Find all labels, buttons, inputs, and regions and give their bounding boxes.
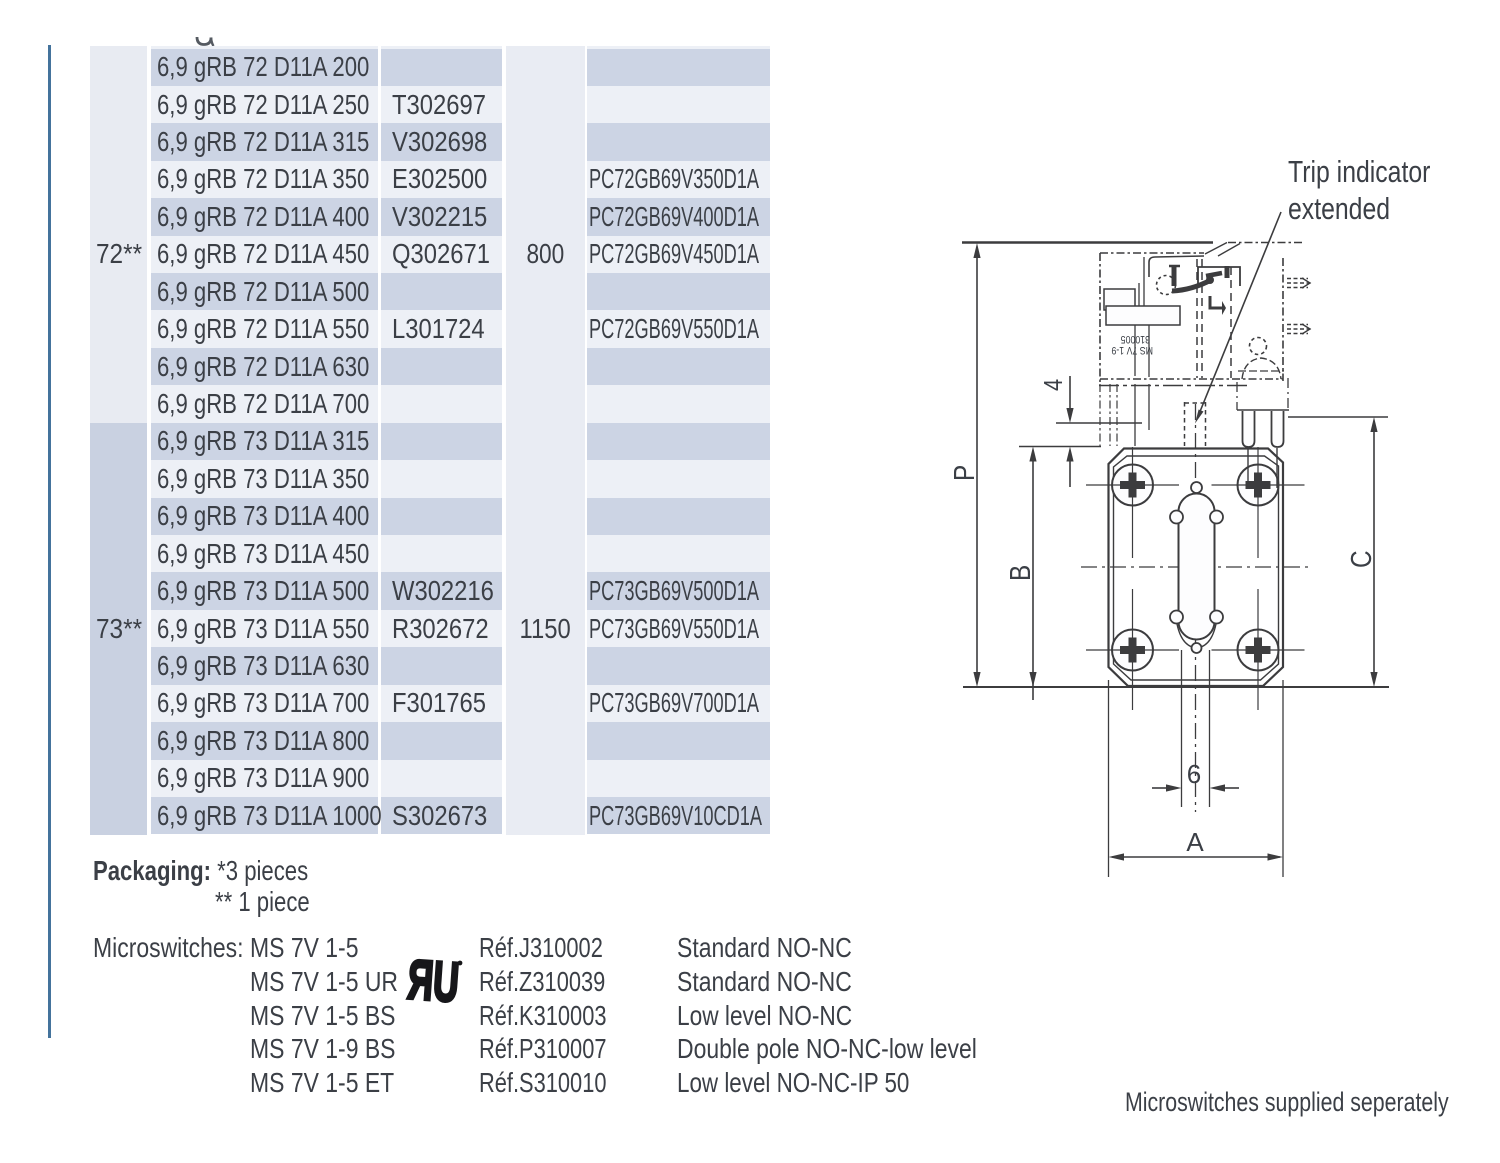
plunger pin thick bbox=[1172, 266, 1177, 286]
side hole bottom-left bbox=[1170, 611, 1183, 624]
svg-text:A: A bbox=[1186, 827, 1204, 857]
product name column bbox=[151, 46, 378, 835]
svg-text:C: C bbox=[1345, 550, 1377, 568]
svg-text:310005: 310005 bbox=[1120, 333, 1150, 345]
bent arrow symbol bbox=[1210, 296, 1222, 308]
bracket solid verticals bbox=[1135, 384, 1149, 446]
packaging note bbox=[93, 856, 365, 886]
contact thick marks bbox=[1206, 273, 1222, 276]
dimension C line with arrows bbox=[1370, 417, 1377, 687]
vertical centerline bbox=[1195, 404, 1197, 812]
stirrup arc right bbox=[1201, 624, 1216, 647]
fuse body outer outline bbox=[1109, 449, 1284, 687]
table label column group 72 bbox=[90, 46, 147, 423]
plunger hook bbox=[1169, 265, 1180, 268]
switch hole dotted bbox=[1250, 338, 1267, 355]
side hole bottom-right bbox=[1210, 611, 1223, 624]
dimension B top tick bbox=[1019, 446, 1101, 448]
screw at 1258,485 bbox=[1212, 447, 1305, 558]
voltage 1150 bbox=[506, 610, 585, 647]
svg-text:P: P bbox=[948, 465, 980, 481]
screw at 1132.5,485 bbox=[1086, 447, 1179, 558]
packaging note line 2 bbox=[215, 887, 335, 917]
trip indicator dashed box bbox=[1185, 402, 1206, 446]
microswitch outline left bbox=[1099, 253, 1101, 382]
label 73** bbox=[96, 610, 149, 647]
svg-text:6: 6 bbox=[1187, 759, 1201, 789]
inner vertical pair low bbox=[1135, 325, 1149, 377]
microswitch top right dashes bbox=[1228, 242, 1302, 244]
dimension 4 reference line bbox=[1056, 422, 1142, 424]
label rect small bbox=[1104, 289, 1135, 310]
plunger dotted circle bbox=[1157, 276, 1176, 295]
left blue rule bbox=[48, 45, 51, 1038]
right dashed divider bbox=[1230, 267, 1232, 378]
clip dashdot right bbox=[1287, 378, 1289, 410]
switch front corner bbox=[1149, 256, 1204, 277]
svg-text:UR: UR bbox=[406, 948, 461, 1014]
clip prong right bbox=[1272, 411, 1284, 447]
svg-text:MS 7V 1-9: MS 7V 1-9 bbox=[1111, 344, 1153, 356]
plunger dome bbox=[1242, 358, 1281, 379]
voltage 800 bbox=[506, 236, 585, 273]
small hole top bbox=[1191, 482, 1202, 493]
dimension A line with arrows bbox=[1109, 853, 1284, 860]
dimension A extension lines bbox=[1108, 680, 1110, 877]
partial clipped row text at table top bbox=[192, 36, 222, 48]
microswitch bracket line bbox=[1099, 385, 1248, 387]
center dashed divider bbox=[1196, 259, 1198, 378]
inner vertical pair bbox=[1139, 257, 1144, 325]
reference column bbox=[381, 46, 503, 835]
svg-text:B: B bbox=[1004, 565, 1036, 581]
contact box bbox=[1198, 267, 1240, 288]
dimension 6 arrows bbox=[1152, 784, 1239, 791]
dimension 6 extension lines bbox=[1181, 650, 1183, 807]
leader line bbox=[1199, 212, 1281, 414]
lever thick curve bbox=[1172, 280, 1211, 291]
dimension P top reference line bbox=[962, 241, 1213, 243]
label 72** bbox=[96, 236, 149, 273]
side hole top-right bbox=[1210, 511, 1223, 524]
lever end blob bbox=[1206, 276, 1214, 284]
clip leg left inside body bbox=[1247, 448, 1249, 488]
oval slot bbox=[1179, 494, 1215, 640]
screw at 1258,650 bbox=[1212, 589, 1305, 710]
clip dashdot left bbox=[1236, 382, 1238, 410]
dimension baseline bottom bbox=[963, 686, 1389, 688]
fuse body inner outline bbox=[1114, 456, 1279, 680]
stirrup arc left bbox=[1177, 624, 1192, 647]
clip horizontal line bbox=[1237, 409, 1289, 411]
bottom right note bbox=[1125, 1087, 1500, 1117]
voltage column bbox=[506, 46, 585, 835]
trip indicator label bbox=[1288, 157, 1466, 187]
label rect wide bbox=[1106, 306, 1180, 325]
svg-text:4: 4 bbox=[1039, 379, 1068, 391]
screw at 1132.5,650 bbox=[1086, 589, 1179, 710]
clip leg right inside body bbox=[1276, 448, 1278, 488]
dimension B line with arrows bbox=[1029, 447, 1036, 701]
terminal pins y=329 bbox=[1287, 325, 1311, 334]
clip prong left bbox=[1243, 411, 1255, 447]
microswitch outline top bbox=[1100, 252, 1204, 254]
dimension P line with arrows bbox=[973, 243, 980, 687]
PC code column bbox=[587, 46, 770, 835]
dome base line bbox=[1238, 370, 1284, 372]
dimension C top tick bbox=[1288, 416, 1388, 418]
dimension 4 arrows bbox=[1066, 376, 1073, 487]
microswitch outline bottom bbox=[1100, 378, 1283, 380]
microswitch outline right bbox=[1282, 258, 1284, 381]
horizontal centerline bbox=[1081, 566, 1309, 568]
bracket dashdot verticals bbox=[1099, 384, 1101, 446]
UL recognized component logo bbox=[406, 948, 463, 1014]
small hole bottom bbox=[1192, 643, 1202, 653]
table label column group 73 bbox=[90, 423, 147, 835]
microswitches list bbox=[93, 933, 277, 963]
side hole top-left bbox=[1170, 511, 1183, 524]
microswitch lever slant lines bbox=[1205, 243, 1240, 257]
terminal pins y=283 bbox=[1287, 279, 1311, 288]
